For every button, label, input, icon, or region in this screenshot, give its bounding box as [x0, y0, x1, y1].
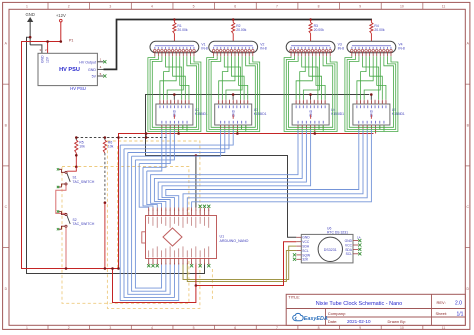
HV bus wire (thick)	[104, 20, 373, 70]
svg-text:SDA: SDA	[302, 245, 310, 249]
svg-text:7: 7	[276, 326, 278, 330]
nixie tube V3 IN-8	[286, 41, 344, 53]
svg-text:GND: GND	[345, 239, 353, 243]
tube V2 pin stubs	[214, 52, 253, 56]
svg-text:32K: 32K	[302, 258, 309, 262]
wire SDA olive	[183, 246, 296, 279]
svg-text:ARDUINO_NANO: ARDUINO_NANO	[220, 239, 249, 243]
pull-up resistor R5	[75, 138, 85, 154]
svg-text:5: 5	[193, 326, 195, 330]
svg-text:5: 5	[193, 4, 195, 8]
svg-text:GND: GND	[40, 55, 44, 63]
svg-text:TITLE:: TITLE:	[288, 294, 300, 299]
svg-text:Sheet:: Sheet:	[436, 311, 448, 316]
driver IC U5 K155ID1	[353, 100, 405, 130]
title block	[286, 294, 465, 325]
+5V red rail	[119, 134, 374, 269]
svg-text:DS3231: DS3231	[324, 248, 337, 252]
wire GND to PSU	[30, 45, 42, 53]
svg-text:8: 8	[318, 326, 320, 330]
driver IC U3 K155ID1	[215, 100, 267, 130]
driver IC U2 K155ID1	[156, 100, 208, 130]
svg-text:SCL: SCL	[302, 249, 309, 253]
nixie tube V1 IN-8	[150, 41, 208, 53]
dashed module edge D	[117, 146, 119, 268]
wire GND branch left	[27, 37, 205, 273]
wire VCC red to RTC	[196, 242, 296, 286]
blue BCD wires driver U5 to Arduino	[183, 130, 371, 208]
blue bundle wires into Arduino top pins	[139, 164, 157, 208]
tact switch S2	[57, 210, 95, 230]
HV PSU U-block	[38, 48, 104, 91]
svg-text:IN-8: IN-8	[398, 47, 405, 51]
green cathode wires tube V2 to driver U3	[207, 56, 260, 131]
wire +12V rail	[22, 42, 120, 269]
green cathode wires tube V1 to driver U2	[148, 56, 201, 131]
svg-text:10: 10	[400, 326, 404, 330]
gray GND bus down to RTC	[146, 95, 297, 238]
dashed module outline A	[62, 167, 189, 304]
svg-text:5V: 5V	[92, 75, 97, 79]
no-connect RTC right pins	[358, 239, 361, 242]
junction +12V	[60, 40, 63, 43]
no-connect 5V	[103, 74, 106, 77]
blue BCD wires drivers U2/U3 into left bundle	[120, 130, 233, 171]
tube V3 pin stubs	[291, 52, 330, 56]
svg-text:8: 8	[318, 4, 320, 8]
junction GND branch	[29, 36, 32, 39]
svg-text:1: 1	[26, 4, 28, 8]
dashed wire R6 down	[104, 153, 106, 203]
svg-text:3: 3	[109, 4, 111, 8]
wire red return loop	[113, 269, 196, 303]
svg-text:GND: GND	[302, 236, 310, 240]
wire R6 junction to rail	[104, 203, 106, 269]
svg-text:7: 7	[276, 4, 278, 8]
gray GND bus across drivers	[145, 94, 369, 96]
dashed wire pullups to 5V	[76, 137, 168, 139]
anode resistor R3	[309, 18, 324, 41]
anode resistor R2	[232, 18, 247, 41]
svg-text:HV PSU: HV PSU	[70, 86, 86, 91]
EasyEDA logo	[293, 313, 304, 320]
svg-text:TAC_SWITCH: TAC_SWITCH	[73, 222, 95, 226]
dashed module edge C	[211, 269, 213, 300]
RTC module U6 DS3231	[296, 227, 358, 263]
driver U3 GND stub to bus	[232, 95, 234, 100]
blue U-turn wires to Arduino bottom pins	[120, 145, 179, 300]
svg-text:2: 2	[68, 4, 70, 8]
anode resistor R1	[173, 18, 188, 41]
svg-text:RTC DS 3231: RTC DS 3231	[327, 230, 348, 234]
wire SCL olive	[187, 251, 296, 282]
no-connect RTC SQW	[293, 253, 296, 256]
wire S1 to S2	[56, 185, 66, 213]
svg-text:SQW: SQW	[302, 253, 311, 257]
driver U2 GND stub to bus	[173, 95, 175, 100]
svg-text:9: 9	[359, 4, 361, 8]
svg-text:1A: 1A	[357, 236, 361, 240]
svg-text:Nixie Tube Clock Schematic - N: Nixie Tube Clock Schematic - Nano	[316, 301, 403, 307]
svg-text:IN-8: IN-8	[260, 47, 267, 51]
no-connect Arduino top pins	[199, 205, 202, 208]
svg-text:P1: P1	[69, 39, 73, 43]
wire R5 to S1	[75, 153, 77, 167]
svg-text:20.00k: 20.00k	[374, 28, 384, 32]
svg-text:6: 6	[234, 326, 236, 330]
junction 5V rail bottom	[117, 267, 120, 270]
green cathode wires tube V3 to driver U4	[284, 56, 337, 131]
blue BCD wires driver U4 to Arduino	[151, 130, 359, 208]
svg-text:HV PSU: HV PSU	[59, 67, 80, 73]
svg-text:IN-8: IN-8	[201, 47, 208, 51]
svg-text:GND: GND	[26, 12, 35, 17]
ground symbol GND	[26, 12, 35, 45]
wire S2 to rail	[65, 227, 67, 268]
svg-text:SCL: SCL	[346, 252, 353, 256]
nixie tube V4 IN-8	[347, 41, 405, 53]
svg-text:10k: 10k	[108, 145, 114, 149]
svg-text:REV:: REV:	[437, 300, 446, 305]
tube V4 pin stubs	[352, 52, 391, 56]
driver U5 GND stub to bus	[370, 95, 372, 100]
nixie tube V2 IN-8	[209, 41, 267, 53]
svg-text:20.00k: 20.00k	[236, 28, 246, 32]
dashed module outline B	[107, 141, 199, 308]
no-connect HV Output	[103, 60, 106, 63]
no-connect Arduino bottom pins	[147, 264, 150, 267]
svg-text:+12V: +12V	[56, 13, 66, 18]
driver U2 VCC stub to 5V rail	[178, 130, 180, 134]
svg-text:Date:: Date:	[328, 319, 338, 324]
svg-text:2021-02-10: 2021-02-10	[347, 319, 371, 324]
svg-text:11: 11	[442, 4, 446, 8]
driver U3 VCC stub to 5V rail	[236, 130, 238, 134]
svg-text:6: 6	[234, 4, 236, 8]
svg-text:4: 4	[151, 4, 153, 8]
junction 5V drop	[117, 136, 120, 139]
driver U4 GND stub to bus	[310, 95, 312, 100]
driver U4 VCC stub to 5V rail	[314, 130, 316, 134]
svg-text:20.00k: 20.00k	[314, 28, 324, 32]
svg-text:10k: 10k	[79, 145, 85, 149]
svg-text:1/1: 1/1	[457, 312, 464, 318]
svg-text:IN-8: IN-8	[338, 47, 345, 51]
svg-text:2: 2	[68, 326, 70, 330]
svg-text:Drawn By:: Drawn By:	[388, 319, 406, 324]
svg-text:11: 11	[442, 326, 446, 330]
svg-text:3: 3	[109, 326, 111, 330]
junction gray GND	[195, 154, 198, 157]
tact switch S1	[57, 168, 95, 188]
junction VCC	[195, 284, 198, 287]
gray GND branch to Arduino	[195, 156, 197, 208]
svg-text:VCC: VCC	[302, 240, 310, 244]
pull-up resistor R6	[103, 138, 113, 154]
green cathode wires tube V4 to driver U5	[345, 56, 398, 131]
svg-text:HV Output: HV Output	[79, 60, 96, 64]
driver IC U4 K155ID1	[292, 100, 344, 130]
+12V power symbol	[56, 13, 66, 42]
svg-text:1: 1	[26, 326, 28, 330]
wire +12V to PSU 12V pin	[47, 42, 49, 54]
svg-text:10: 10	[400, 4, 404, 8]
svg-text:GND: GND	[88, 68, 96, 72]
svg-text:U1: U1	[220, 235, 225, 239]
svg-text:20.00k: 20.00k	[177, 28, 187, 32]
driver U5 VCC stub to 5V rail	[375, 130, 377, 134]
no-connect RTC 32K	[293, 258, 296, 261]
svg-text:SDA: SDA	[345, 248, 353, 252]
svg-text:Company:: Company:	[328, 311, 346, 316]
Arduino Nano U1	[142, 208, 249, 265]
svg-text:EasyEDA: EasyEDA	[304, 316, 328, 322]
svg-text:TAC_SWITCH: TAC_SWITCH	[73, 180, 95, 184]
svg-text:9: 9	[359, 326, 361, 330]
tube V1 pin stubs	[155, 52, 194, 56]
svg-text:4: 4	[151, 326, 153, 330]
svg-text:12V: 12V	[46, 56, 50, 63]
svg-text:2.0: 2.0	[455, 300, 462, 306]
anode resistor R4	[370, 20, 385, 42]
svg-text:VCC: VCC	[345, 243, 353, 247]
